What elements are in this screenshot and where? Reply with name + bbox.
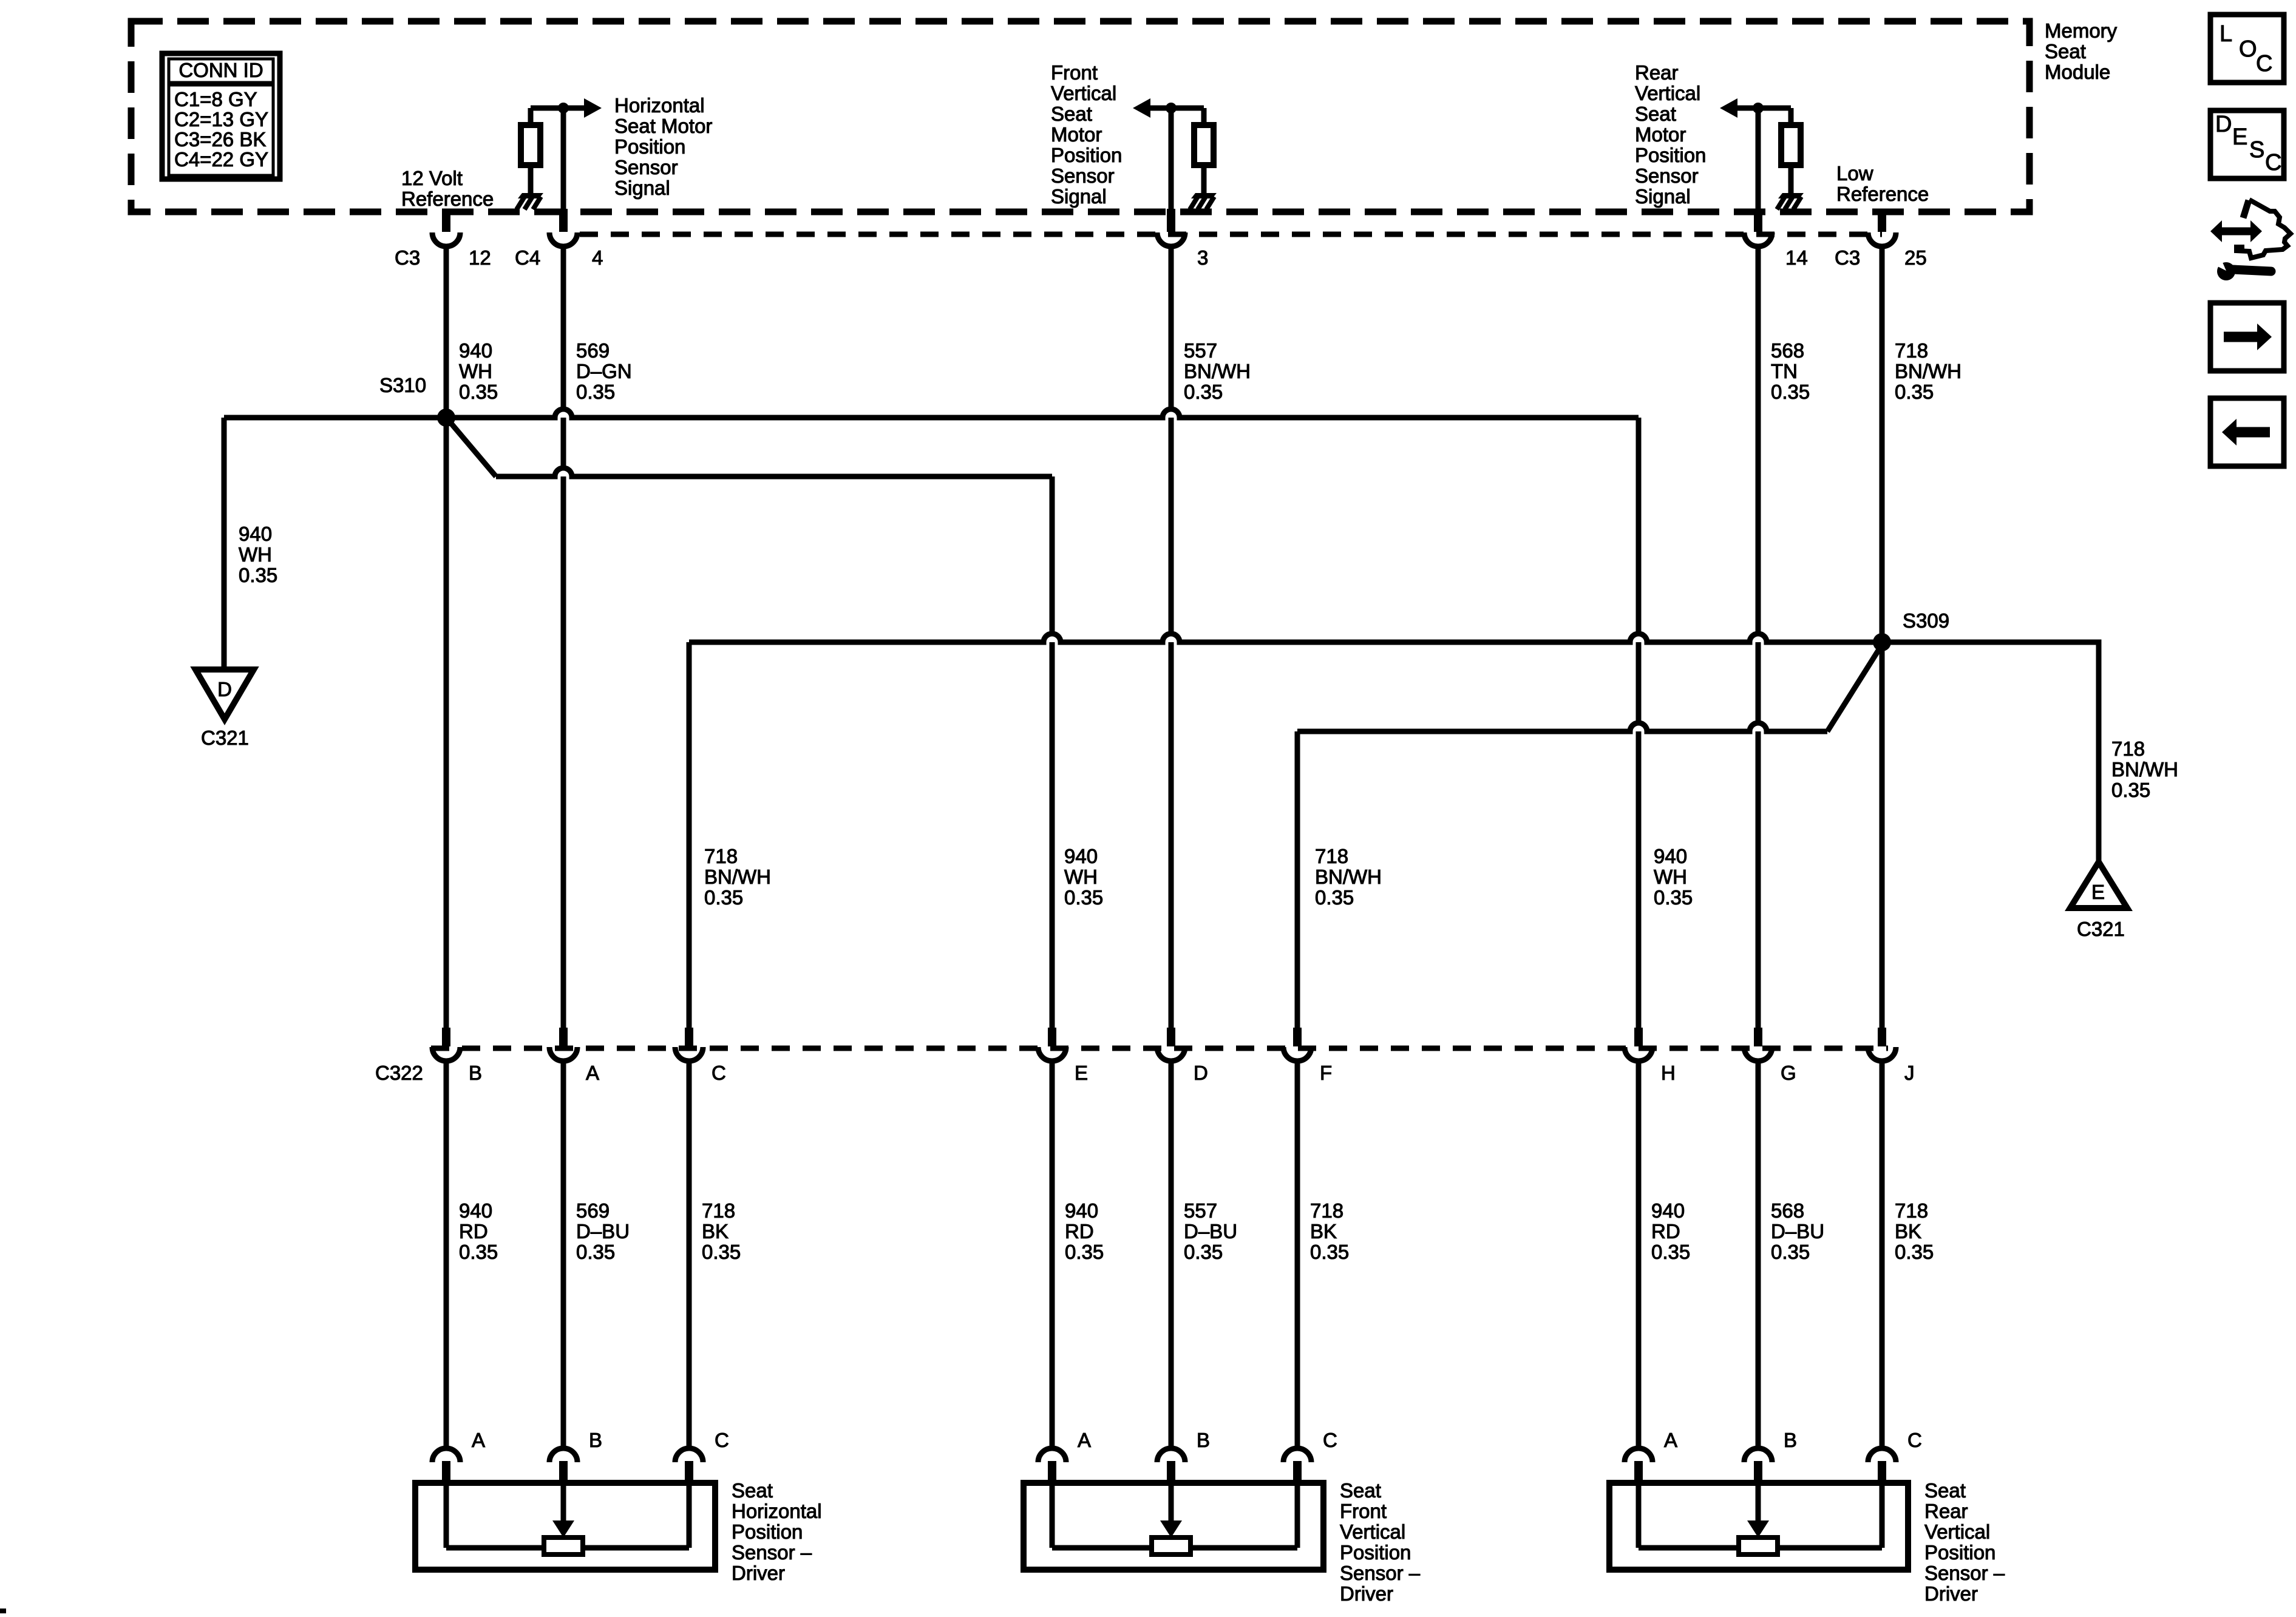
wire S309 branch to C322 C (horizontal run with crossovers) [689,634,1882,642]
svg-text:C: C [2256,51,2272,76]
svg-text:Position: Position [614,135,685,158]
page artifact speck [0,1609,6,1613]
icon: forward arrow box [2210,303,2284,371]
svg-text:C322: C322 [375,1062,423,1084]
wire label 718 BK 0.35 (below C322 J) [1895,1199,1934,1263]
rear vertical seat motor position sensor source (U-rear): junction dot, pull-up resistor and ground inside module [1753,103,1801,195]
wire S310 branch to C322 E (horizontal run with crossover) [496,468,1052,476]
connector pin C4-4 (Horizontal sensor signal) [549,209,577,246]
CONN ID table [162,53,280,179]
svg-text:Position: Position [1340,1541,1411,1564]
wire below C322 pin B [444,1061,449,1449]
svg-text:940: 940 [1064,845,1098,867]
svg-text:D–BU: D–BU [1771,1220,1824,1242]
icon: DESC box [2210,110,2284,178]
wire label 940 RD 0.35 (below C322 E) [1065,1199,1104,1263]
wire label 557 D–BU 0.35 (below C322 D) [1184,1199,1237,1263]
svg-text:Rear: Rear [1924,1500,1968,1522]
pin label C3 (pin 12 connector) [395,246,420,269]
svg-text:0.35: 0.35 [1771,381,1810,403]
signal arrow for horizontal seat motor position sensor source (U-horiz) [563,98,602,118]
pin number 3 [1197,246,1208,269]
svg-text:RD: RD [1065,1220,1094,1242]
sensor pin C (J column) [1868,1448,1896,1484]
connector C322 pin B [432,1028,460,1061]
svg-text:Signal: Signal [1051,185,1107,208]
ground (chassis) for horizontal seat motor position sensor source (U-horiz) [517,193,543,209]
wire label 718 BK 0.35 (below C322 C) [702,1199,741,1263]
svg-text:C321: C321 [201,727,249,749]
svg-text:Driver: Driver [1340,1582,1393,1605]
svg-text:O: O [2239,36,2257,62]
sensor pin A (E column) [1038,1448,1066,1484]
label: Seat Front Vertical Position Sensor - Driver [1340,1479,1421,1605]
svg-text:Sensor –: Sensor – [1924,1562,2005,1584]
wire label 569 D-GN 0.35 (pin 4) [576,339,632,403]
svg-text:BN/WH: BN/WH [1315,866,1382,888]
svg-text:WH: WH [1064,866,1098,888]
svg-text:718: 718 [704,845,738,867]
sensor pin letter B (D column) [1197,1429,1210,1451]
svg-text:H: H [1661,1062,1676,1084]
sensor pin B (D column) [1157,1448,1185,1484]
potentiometer sensor box: Seat Rear Vertical Position Sensor - Driver [1609,1483,1908,1570]
pin number 4 [592,246,603,269]
wire 718 BN/WH: pin 25 down to C322 J (through S309) [1880,246,1885,1030]
svg-text:Signal: Signal [1635,185,1691,208]
svg-text:Driver: Driver [1924,1582,1978,1605]
svg-text:BN/WH: BN/WH [1895,360,1961,382]
wire 568 TN: pin 14 down to C322 G [1756,246,1761,1030]
pin number 25 [1904,246,1927,269]
wire label 718 BN/WH 0.35 (S309 to C321-E) [2111,737,2178,801]
svg-text:Vertical: Vertical [1924,1520,1990,1543]
svg-text:718: 718 [702,1199,735,1222]
svg-text:0.35: 0.35 [1064,886,1103,909]
label: Seat Horizontal Position Sensor - Driver [732,1479,822,1584]
svg-text:C: C [1907,1429,1922,1451]
svg-text:569: 569 [576,1199,610,1222]
wire label 718 BN/WH 0.35 (pin 25) [1895,339,1961,403]
svg-text:WH: WH [1654,866,1687,888]
svg-text:Seat: Seat [732,1479,773,1502]
svg-text:718: 718 [1895,1199,1928,1222]
connector C322 line (dashed) [431,1046,1888,1051]
svg-text:L: L [2220,21,2232,47]
svg-text:0.35: 0.35 [459,1241,498,1263]
svg-text:Position: Position [732,1520,803,1543]
sensor pin letter B (A column) [589,1429,602,1451]
svg-text:4: 4 [592,246,603,269]
svg-text:0.35: 0.35 [1310,1241,1349,1263]
wire label 568 D–BU 0.35 (below C322 G) [1771,1199,1824,1263]
connector C322 pin A [549,1028,577,1061]
svg-text:Module: Module [2045,61,2110,83]
svg-text:Sensor: Sensor [614,156,678,178]
Memory Seat Module dashed outline [131,21,2029,212]
svg-text:D–BU: D–BU [576,1220,630,1242]
pin letter G (C322) [1781,1062,1796,1084]
svg-text:Vertical: Vertical [1340,1520,1405,1543]
svg-text:0.35: 0.35 [1654,886,1693,909]
svg-text:C: C [712,1062,726,1084]
svg-text:C: C [1323,1429,1337,1451]
connector pin C3-12 (12 Volt Reference) [432,209,460,246]
potentiometer sensor box: Seat Horizontal Position Sensor - Driver [415,1483,715,1570]
wire below C322 pin E [1050,1061,1055,1449]
pin letter B (C322) [469,1062,482,1084]
svg-text:D: D [1194,1062,1208,1084]
sensor pin B (A column) [549,1448,577,1484]
svg-text:718: 718 [1895,339,1928,362]
svg-text:Rear: Rear [1635,61,1679,84]
svg-text:569: 569 [576,339,610,362]
svg-text:C2=13 GY: C2=13 GY [174,108,268,131]
svg-text:B: B [1784,1429,1797,1451]
pin number 12 [469,246,491,269]
pin letter J (C322) [1904,1062,1915,1084]
sensor pin letter C (J column) [1907,1429,1922,1451]
svg-text:B: B [589,1429,602,1451]
sensor pin letter C (C column) [715,1429,729,1451]
wire label 718 BN/WH 0.35 (to C322 C) [704,845,771,909]
svg-text:D: D [217,678,232,700]
svg-text:C321: C321 [2077,918,2125,940]
svg-text:Motor: Motor [1635,123,1686,146]
svg-text:C4=22 GY: C4=22 GY [174,148,268,171]
wire below C322 pin A [561,1061,566,1449]
svg-text:E: E [2091,881,2105,903]
connector C322 pin D [1157,1028,1185,1061]
svg-text:E: E [1075,1062,1088,1084]
pin letter F (C322) [1320,1062,1332,1084]
svg-text:J: J [1904,1062,1915,1084]
svg-text:Reference: Reference [1836,183,1929,205]
sensor pin letter C (F column) [1323,1429,1337,1451]
svg-text:Position: Position [1924,1541,1995,1564]
svg-text:B: B [469,1062,482,1084]
wire label 718 BN/WH 0.35 (to C322 F) [1315,845,1382,909]
pin label C3 (pin 25 connector) [1835,246,1860,269]
svg-text:S310: S310 [379,374,426,396]
label: Seat Rear Vertical Position Sensor - Driver [1924,1479,2005,1605]
wire label 568 TN 0.35 (pin 14) [1771,339,1810,403]
icon: diagnostic wrench with double arrow [2210,200,2291,280]
svg-text:568: 568 [1771,1199,1804,1222]
svg-text:Sensor: Sensor [1635,164,1699,187]
svg-text:D–GN: D–GN [576,360,632,382]
svg-text:940: 940 [239,523,272,545]
svg-text:14: 14 [1785,246,1808,269]
wire below C322 pin D [1169,1061,1174,1449]
svg-text:S309: S309 [1903,609,1949,632]
svg-text:BK: BK [702,1220,729,1242]
svg-text:940: 940 [459,339,492,362]
svg-text:Low: Low [1836,162,1873,185]
svg-text:RD: RD [1651,1220,1680,1242]
wire from front vertical seat motor position sensor source (U-front) down to module connector [1169,108,1174,210]
svg-text:0.35: 0.35 [1895,381,1934,403]
sensor pin C (F column) [1283,1448,1311,1484]
svg-text:718: 718 [1310,1199,1343,1222]
sensor pin A (H column) [1625,1448,1652,1484]
svg-text:0.35: 0.35 [459,381,498,403]
wire below C322 pin J [1880,1061,1885,1449]
svg-text:Sensor: Sensor [1051,164,1115,187]
connector C321 cavity D (triangle) [195,670,254,719]
wire 557 BN/WH: pin 3 down to C322 D [1169,246,1174,1030]
svg-text:Vertical: Vertical [1051,82,1116,104]
connector line at module bottom (dashed) [580,232,1882,237]
svg-text:Reference: Reference [401,188,494,210]
svg-text:B: B [1197,1429,1210,1451]
svg-text:0.35: 0.35 [239,564,277,586]
svg-text:Seat: Seat [1635,103,1676,125]
splice S309 [1873,633,1891,651]
pin letter A (C322) [586,1062,599,1084]
svg-text:BK: BK [1310,1220,1337,1242]
svg-text:0.35: 0.35 [1651,1241,1690,1263]
sensor pin letter A (E column) [1078,1429,1091,1451]
svg-text:C1=8 GY: C1=8 GY [174,88,257,110]
wire below C322 pin F [1295,1061,1300,1449]
svg-text:940: 940 [459,1199,492,1222]
wire label 940 WH 0.35 (S310 to C321-D) [239,523,277,586]
svg-text:0.35: 0.35 [1184,381,1223,403]
horizontal seat motor position sensor source (U-horiz): junction dot, pull-up resistor and ground inside module [521,103,569,195]
icon: back arrow box [2210,398,2284,466]
svg-text:CONN ID: CONN ID [178,59,263,81]
ground (chassis) for rear vertical seat motor position sensor source (U-rear) [1777,193,1804,209]
svg-text:12 Volt: 12 Volt [401,167,463,189]
signal arrow for rear vertical seat motor position sensor source (U-rear) [1720,98,1758,118]
pin letter D (C322) [1194,1062,1208,1084]
svg-text:3: 3 [1197,246,1208,269]
svg-text:568: 568 [1771,339,1804,362]
wire below C322 pin H [1636,1061,1642,1449]
svg-text:G: G [1781,1062,1796,1084]
svg-text:Position: Position [1635,144,1706,166]
wire 569 D-GN: pin 4 down to C322 A [561,246,566,1030]
svg-text:0.35: 0.35 [1065,1241,1104,1263]
sensor pin letter A (H column) [1664,1429,1677,1451]
svg-text:Motor: Motor [1051,123,1102,146]
svg-text:BN/WH: BN/WH [704,866,771,888]
svg-text:WH: WH [459,360,492,382]
pin letter H (C322) [1661,1062,1676,1084]
svg-text:BN/WH: BN/WH [2111,758,2178,781]
wire 940 WH: S310 left branch down to C321 D [222,418,227,670]
svg-text:BN/WH: BN/WH [1184,360,1251,382]
label: 12 Volt Reference [401,167,494,210]
sensor pin C (C column) [675,1448,703,1484]
pin label C4 (pin 4 connector) [515,246,540,269]
wire from rear vertical seat motor position sensor source (U-rear) down to module connector [1756,108,1761,210]
svg-text:718: 718 [1315,845,1348,867]
svg-text:BK: BK [1895,1220,1921,1242]
svg-text:0.35: 0.35 [1771,1241,1810,1263]
connector pin 14 (Rear vertical sensor signal) [1744,209,1772,246]
sensor pin letter A (B column) [472,1429,485,1451]
wire 718 BN/WH: S309 right branch to C321 E [1882,642,2099,862]
svg-text:RD: RD [459,1220,488,1242]
label: Front Vertical Seat Motor Position Sensor Signal [1051,61,1122,208]
wire 940 WH: pin 12 down to C322 B (through S310) [444,246,449,1030]
label: Rear Vertical Seat Motor Position Sensor Signal [1635,61,1706,208]
svg-text:Driver: Driver [732,1562,785,1584]
svg-text:Seat: Seat [1340,1479,1381,1502]
sensor pin letter B (G column) [1784,1429,1797,1451]
potentiometer sensor box: Seat Front Vertical Position Sensor - Driver [1024,1483,1323,1570]
svg-text:Memory: Memory [2045,19,2118,42]
wire 940 WH: down to C322 E [1050,476,1055,1030]
svg-text:Seat Motor: Seat Motor [614,115,712,137]
svg-text:A: A [586,1062,599,1084]
wire label 718 BK 0.35 (below C322 F) [1310,1199,1349,1263]
svg-text:Front: Front [1340,1500,1387,1522]
wire 940 WH: down to C322 H [1636,418,1642,1030]
svg-text:0.35: 0.35 [2111,779,2150,801]
svg-text:Horizontal: Horizontal [732,1500,822,1522]
sensor pin A (B column) [432,1448,460,1484]
svg-text:718: 718 [2111,737,2145,760]
svg-text:Seat: Seat [1051,103,1092,125]
connector pin C3-25 (Low Reference) [1868,209,1896,246]
wire label 940 WH 0.35 (to C322 E) [1064,845,1103,909]
label: Low Reference [1836,162,1929,205]
svg-text:557: 557 [1184,339,1217,362]
wire S310 branch to C322 H (horizontal run with crossovers) [224,409,1639,418]
svg-text:S: S [2249,137,2264,163]
svg-text:A: A [1664,1429,1677,1451]
sensor pin B (G column) [1744,1448,1772,1484]
wire label 940 WH 0.35 (to C322 H) [1654,845,1693,909]
front vertical seat motor position sensor source (U-front): junction dot, pull-up resistor and ground inside module [1166,103,1214,195]
svg-text:C: C [2265,150,2281,175]
svg-text:Sensor –: Sensor – [1340,1562,1421,1584]
pin letter C (C322) [712,1062,726,1084]
svg-text:C4: C4 [515,246,540,269]
connector C321 cavity E (triangle) [2070,862,2127,908]
connector C322 pin C [675,1028,703,1061]
wire: S310 diagonal branch [446,418,496,476]
label: Horizontal Seat Motor Position Sensor Signal [614,94,712,199]
wire below C322 pin C [687,1061,692,1449]
svg-text:12: 12 [469,246,491,269]
svg-text:Vertical: Vertical [1635,82,1700,104]
svg-text:0.35: 0.35 [576,1241,615,1263]
svg-text:0.35: 0.35 [702,1241,741,1263]
wire 718 BN/WH: down to C322 F [1295,731,1300,1030]
svg-text:D: D [2215,112,2232,137]
wire label 940 WH 0.35 (pin 12) [459,339,498,403]
svg-text:Sensor –: Sensor – [732,1541,812,1564]
wire: diagonal up to splice S309 [1827,645,1882,731]
svg-text:0.35: 0.35 [704,886,743,909]
pin letter E (C322) [1075,1062,1088,1084]
connector C322 pin H [1625,1028,1652,1061]
svg-text:C3: C3 [395,246,420,269]
svg-text:WH: WH [239,543,272,566]
svg-text:Horizontal: Horizontal [614,94,705,117]
svg-text:Seat: Seat [2045,40,2086,63]
svg-text:940: 940 [1654,845,1687,867]
signal arrow for front vertical seat motor position sensor source (U-front) [1133,98,1171,118]
wire label 940 RD 0.35 (below C322 H) [1651,1199,1690,1263]
svg-text:C: C [715,1429,729,1451]
svg-text:Seat: Seat [1924,1479,1966,1502]
svg-text:Signal: Signal [614,177,670,199]
connector C322 pin G [1744,1028,1772,1061]
icon: LOC box [2210,15,2284,83]
wire 718 BN/WH: down to C322 C [687,642,692,1030]
connector C322 pin E [1038,1028,1066,1061]
wire from horizontal seat motor position sensor source (U-horiz) down to module connector [561,108,566,210]
connector C322 pin J [1868,1028,1896,1061]
svg-text:0.35: 0.35 [576,381,615,403]
connector pin 3 (Front vertical sensor signal) [1157,209,1185,246]
label: Memory Seat Module [2045,19,2118,83]
splice S310 [437,408,455,427]
svg-text:TN: TN [1771,360,1798,382]
ground (chassis) for front vertical seat motor position sensor source (U-front) [1190,193,1217,209]
svg-text:940: 940 [1651,1199,1685,1222]
svg-text:Position: Position [1051,144,1122,166]
wire label 569 D–BU 0.35 (below C322 A) [576,1199,630,1263]
svg-text:D–BU: D–BU [1184,1220,1237,1242]
svg-text:E: E [2232,124,2247,150]
pin number 14 [1785,246,1808,269]
svg-text:0.35: 0.35 [1895,1241,1934,1263]
svg-text:A: A [1078,1429,1091,1451]
svg-text:A: A [472,1429,485,1451]
svg-text:C3: C3 [1835,246,1860,269]
wire label 557 BN/WH 0.35 (pin 3) [1184,339,1251,403]
wire below C322 pin G [1756,1061,1761,1449]
svg-text:F: F [1320,1062,1332,1084]
svg-text:25: 25 [1904,246,1927,269]
svg-text:0.35: 0.35 [1184,1241,1223,1263]
wire label 940 RD 0.35 (below C322 B) [459,1199,498,1263]
connector C322 pin F [1283,1028,1311,1061]
svg-text:0.35: 0.35 [1315,886,1354,909]
svg-text:557: 557 [1184,1199,1217,1222]
wire S309 branch to C322 F (horizontal run with crossovers) [1297,723,1827,731]
svg-text:940: 940 [1065,1199,1098,1222]
svg-text:Front: Front [1051,61,1098,84]
svg-text:C3=26 BK: C3=26 BK [174,128,266,151]
